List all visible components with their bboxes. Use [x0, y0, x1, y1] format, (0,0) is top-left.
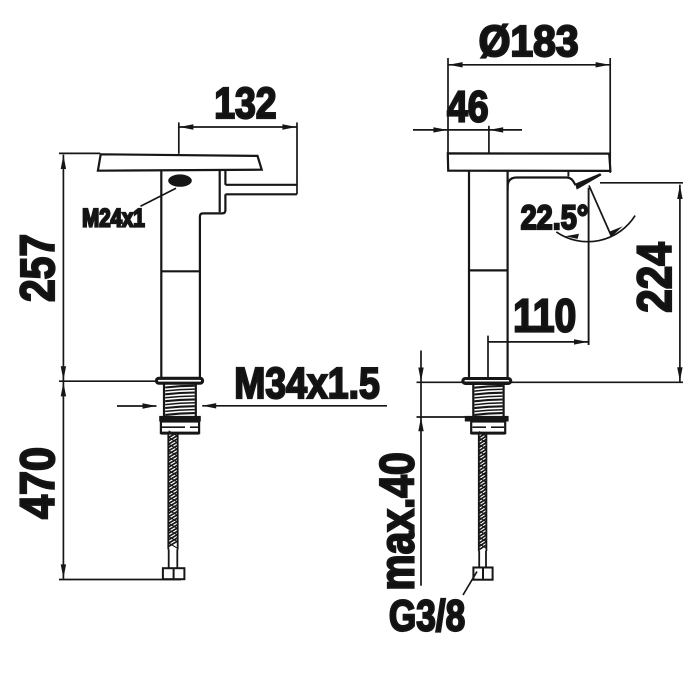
left view: aerator outlet (M24x1), black ellipse — [168, 174, 192, 186]
svg-text:110: 110 — [513, 291, 576, 343]
left view: top mounting plate (spout plate) — [98, 154, 262, 170]
right view: body joint line — [469, 269, 508, 271]
hose end level extension line — [59, 579, 181, 581]
label M24x1 with leader to aerator — [141, 188, 177, 206]
left view: mounting flange washer — [156, 378, 202, 383]
left view: faucet body outline — [160, 171, 162, 377]
dimension 257 (height above counter) — [59, 153, 100, 380]
left view: hose end tube — [169, 550, 178, 569]
right view: tilted open lever (22.5 deg), filled — [575, 173, 601, 189]
right view: mounting flange washer — [463, 379, 511, 384]
right view: threaded shank with hatch — [472, 384, 474, 416]
svg-text:M24x1: M24x1 — [82, 204, 145, 232]
left view: body joint line — [161, 270, 200, 272]
left view: threaded shank M34x1.5 with hatch — [163, 384, 165, 416]
right view: housing right edge / 110 reference — [588, 188, 590, 345]
svg-text:132: 132 — [214, 78, 276, 128]
svg-text:470: 470 — [11, 447, 65, 519]
dimension 470 (hose length below counter) — [62, 382, 64, 579]
svg-text:M34x1.5: M34x1.5 — [234, 358, 380, 408]
nut top level line — [417, 416, 470, 418]
left view: flexible supply hose (braided) — [167, 434, 169, 550]
right view: upper housing (side) with rounded corner — [508, 178, 576, 191]
angle arc 22.5 deg with arrowheads — [556, 216, 635, 242]
dimension 110 (axis to spout/handle face) — [488, 341, 589, 343]
right view: top plate (D183 disc, side) — [448, 153, 611, 171]
right view: lever axis extension line at 22.5 deg — [589, 186, 611, 237]
dimension 132 (plate centre to lever end) — [179, 122, 297, 194]
label G3/8 with leader to hose fitting — [463, 572, 477, 596]
right view: hose end fitting G3/8 — [473, 568, 492, 580]
left view: handle lever bar — [225, 185, 297, 195]
right view: flexible supply hose (braided) — [478, 434, 480, 551]
right view: locking nut (black band) — [465, 416, 509, 422]
dimension 46 (plate edge to axis offset) — [413, 126, 522, 153]
right view: centre line to 110 dim — [487, 336, 489, 378]
right view: hose end tube — [479, 551, 486, 568]
dimension 224 (height of top above counter) — [600, 183, 683, 382]
svg-text:max.40: max.40 — [371, 452, 424, 590]
svg-text:G3/8: G3/8 — [389, 592, 465, 641]
label/dimension M34x1.5 (shank thread) — [117, 405, 157, 407]
left view: nut body — [161, 422, 199, 434]
left view: locking nut (black band) — [159, 416, 201, 422]
dimension max.40 (counter thickness) — [420, 351, 422, 586]
counter/mounting surface line (right view) — [417, 381, 684, 383]
svg-text:224: 224 — [628, 242, 682, 312]
svg-text:Ø183: Ø183 — [479, 18, 579, 67]
svg-text:22.5°: 22.5° — [521, 198, 589, 237]
counter/mounting surface line (left view) — [59, 380, 157, 382]
right view: nut body — [471, 422, 505, 434]
dimension D183 (plate diameter) — [448, 58, 610, 173]
right view: body column — [469, 171, 508, 378]
left view: hose end fitting G3/8 — [163, 568, 185, 579]
svg-text:46: 46 — [447, 82, 489, 132]
svg-text:257: 257 — [12, 234, 65, 302]
